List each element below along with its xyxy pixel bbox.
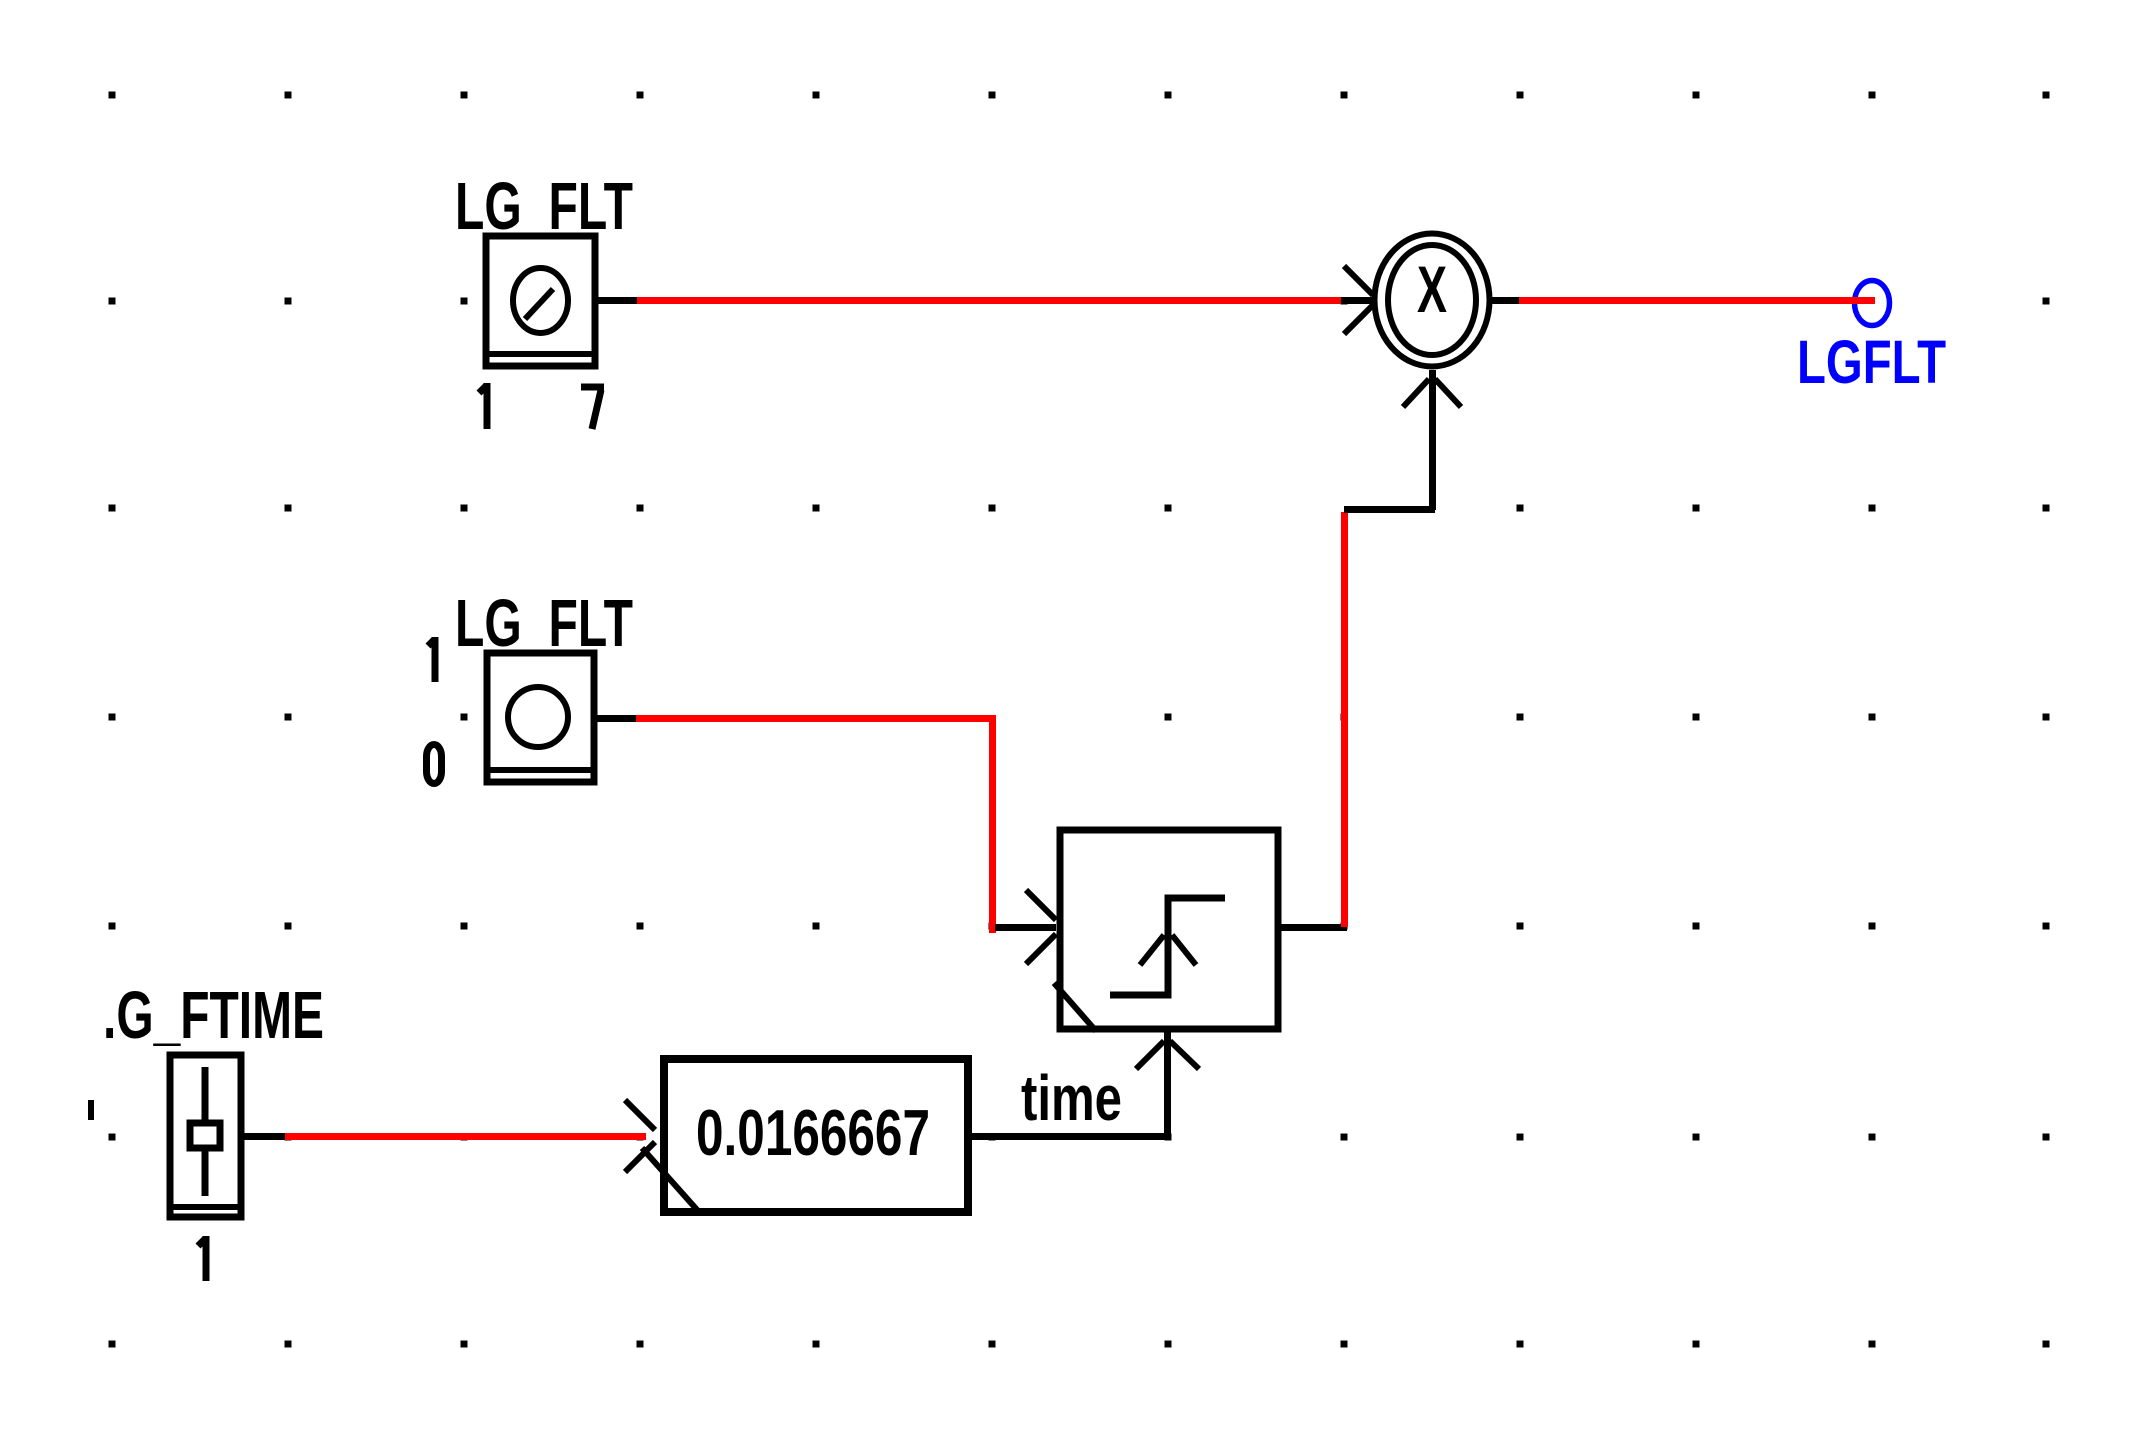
wire: U3 output to node LGFLT (red) [1519,297,1875,304]
gain block G1 (0.0166667) [642,1059,968,1212]
svg-text:LGFLT: LGFLT [1797,328,1946,396]
U3 bottom input arrowhead [1403,379,1461,407]
svg-text:X: X [1417,252,1447,326]
multiplier U3 (X) [1375,234,1490,367]
U4 bottom input arrowhead [1136,1041,1199,1069]
pin/value label "0" (U2 min) [427,745,442,784]
tick mark (clipped label fragment) [88,1100,94,1120]
wire: vertical into U3 bottom input (black) [1429,370,1436,510]
svg-text:0.0166667: 0.0166667 [696,1096,930,1169]
grid dots [109,92,2050,1348]
U3 left input arrowhead [1344,266,1373,334]
comparator U4 (step function) [1054,830,1278,1031]
wire: black stub into U4 left input [995,924,1056,931]
wire: black stub at dial U1 output pin [598,297,637,304]
pin/value label "1" (U2 max) [428,637,435,682]
wire: U5 output to gain G1 (red) [285,1133,646,1140]
wire: black stub at U5 output pin [244,1133,285,1140]
wire: black stub at U4 output [1281,924,1347,931]
pin/value label "1" (U5 value) [198,1236,206,1281]
svg-text:LG_FLT: LG_FLT [455,586,633,661]
svg-text:.G_FTIME: .G_FTIME [103,978,324,1053]
wire: U2 output horizontal (red) [636,715,995,722]
wire: black stub at U2 output pin [597,715,636,722]
svg-text:time: time [1021,1062,1122,1134]
wire: vertical down to comparator U4 input (red) [989,715,996,933]
dial component U1 "LG_FLT" [483,236,598,366]
wire: "time" vertical up into U4 bottom input (black) [1164,1032,1171,1136]
svg-text:LG_FLT: LG_FLT [455,169,633,244]
pin/value label "7" (U1 value) [581,387,604,429]
dial component U2 "LG_FLT" [484,653,597,782]
wire: black stub at U3 output [1490,297,1519,304]
wire: black stub into multiplier U3 left input [1341,297,1374,304]
G1 input arrowhead [625,1100,655,1172]
pin/value label "1" (U1 min) [479,383,487,429]
slider component U5 "LG_FTIME" [167,1055,244,1217]
wire: corner horizontal to U3 bottom column (black) [1344,506,1435,513]
wire: G1 output "time" horizontal (black) [972,1133,1171,1140]
wire: U4 output vertical up (red) [1341,512,1348,927]
wire: dial U1 output to multiplier U3 (red) [637,297,1341,304]
node LGFLT export tag (blue circle) [1855,281,1890,326]
U4 left input arrowhead [1026,890,1056,964]
